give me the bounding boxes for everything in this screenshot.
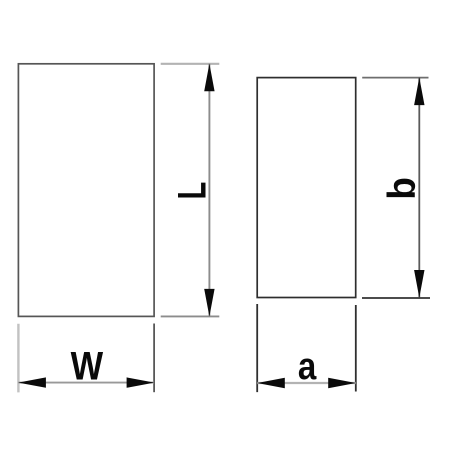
extension line a right xyxy=(355,305,357,392)
extension line a left xyxy=(256,304,258,392)
rectangle left (part outline W x L) xyxy=(18,64,154,317)
extension line L top xyxy=(161,63,220,65)
dimension line b xyxy=(418,78,420,298)
arrowhead L down xyxy=(204,289,214,317)
dimension line a xyxy=(257,382,355,384)
extension line W left xyxy=(17,324,19,393)
extension line b bottom xyxy=(362,297,430,299)
dimension line W xyxy=(18,382,154,384)
dimension line L xyxy=(208,64,210,317)
arrowhead a left xyxy=(257,378,285,388)
arrowhead L up xyxy=(204,64,214,92)
svg-text:a: a xyxy=(298,345,317,388)
arrowhead a right xyxy=(328,378,356,388)
arrowhead W right xyxy=(127,377,155,387)
extension line W right xyxy=(153,324,155,393)
rectangle right (part outline a x b) xyxy=(257,78,356,298)
extension line b top xyxy=(362,77,428,79)
svg-text:W: W xyxy=(71,343,103,388)
svg-text:b: b xyxy=(381,177,424,200)
svg-text:L: L xyxy=(171,182,215,200)
arrowhead b down xyxy=(414,270,424,298)
extension line L bottom xyxy=(161,315,220,317)
arrowhead b up xyxy=(414,77,424,105)
arrowhead W left xyxy=(18,377,46,387)
